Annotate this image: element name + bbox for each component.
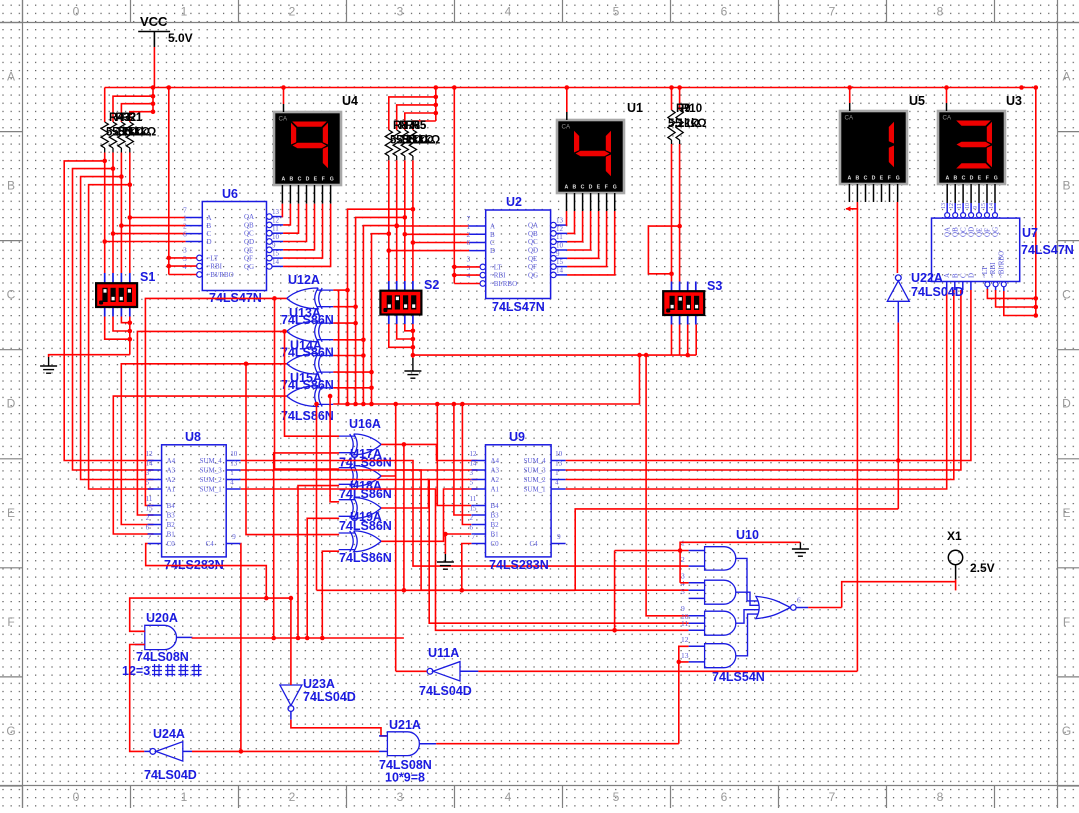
svg-text:10: 10 [272, 233, 280, 241]
U10 AND gate 3 [705, 611, 736, 635]
svg-text:A: A [1062, 70, 1070, 84]
svg-text:QB: QB [952, 227, 960, 237]
svg-text:6: 6 [467, 238, 471, 247]
wire U8 C4 down to bottom row [240, 544, 242, 752]
taps to left bundle [102, 159, 107, 164]
wire U1 CA to bus [566, 88, 568, 113]
wire U23A output to U21A [291, 720, 388, 736]
svg-text:B3: B3 [491, 512, 500, 520]
svg-text:~RBI: ~RBI [989, 262, 997, 278]
U10 input stubs [689, 550, 705, 552]
svg-text:B3: B3 [167, 512, 176, 520]
svg-text:11: 11 [681, 619, 688, 628]
svg-text:S2: S2 [424, 278, 439, 292]
wires U4 segments to U6 [281, 185, 283, 204]
taps to U6 inputs [128, 215, 133, 220]
annotation glyph boxes [152, 664, 162, 677]
ground S1 [40, 366, 57, 373]
AND gate U21A [387, 732, 419, 756]
U10 AND gate 4 [705, 644, 736, 668]
wire S2/S3 common row [413, 354, 696, 356]
svg-text:U8: U8 [185, 430, 201, 444]
svg-text:12=3: 12=3 [122, 664, 150, 678]
svg-text:A3: A3 [167, 467, 176, 475]
wires R9 R10 to S3 [671, 140, 673, 144]
svg-text:5.1kΩ: 5.1kΩ [409, 135, 441, 147]
svg-text:E: E [597, 185, 601, 191]
svg-text:U21A: U21A [389, 718, 421, 732]
wire U12A output to U8 [145, 298, 286, 505]
svg-text:7: 7 [148, 533, 152, 541]
resistor R2 [109, 122, 116, 148]
wires R1-R4 to S1 [104, 153, 106, 274]
chip U9 [486, 445, 552, 557]
svg-text:74LS04D: 74LS04D [419, 684, 472, 698]
U10 AND gate 1 [705, 547, 736, 570]
svg-text:B2: B2 [491, 521, 500, 529]
wire U10 output [796, 607, 808, 609]
svg-text:E: E [314, 177, 318, 183]
svg-text:8: 8 [937, 790, 944, 804]
svg-text:C4: C4 [206, 540, 215, 548]
svg-text:VCC: VCC [140, 14, 168, 29]
svg-text:~BI/RBO: ~BI/RBO [997, 251, 1005, 278]
svg-text:D: D [970, 176, 974, 182]
svg-text:2: 2 [146, 514, 150, 522]
svg-text:A3: A3 [491, 467, 500, 475]
xor gate U16A [339, 434, 382, 455]
wire long row under U9 [317, 589, 576, 591]
xor gate U13A [287, 321, 334, 342]
svg-text:SUM_1: SUM_1 [524, 486, 547, 494]
wires U1 segments to U2 [566, 193, 568, 211]
svg-text:1: 1 [555, 469, 559, 477]
svg-text:SUM_2: SUM_2 [200, 476, 223, 484]
svg-text:11: 11 [146, 495, 153, 503]
wire U5 G segment to U22A [896, 202, 898, 273]
wire U14A output to U8 [121, 364, 286, 525]
svg-text:R5: R5 [412, 120, 427, 132]
svg-text:4: 4 [555, 479, 559, 487]
svg-text:A1: A1 [491, 486, 500, 494]
svg-text:B: B [573, 185, 577, 191]
svg-text:A: A [282, 177, 286, 183]
svg-text:U10: U10 [736, 528, 759, 542]
wire U20A output row [177, 636, 193, 638]
svg-text:13: 13 [230, 460, 238, 468]
probe X1 [948, 550, 962, 564]
svg-text:QD: QD [968, 227, 976, 237]
svg-text:10: 10 [230, 450, 238, 458]
wire output jog to probe [842, 582, 956, 608]
resistor R8 [409, 130, 416, 156]
svg-text:6: 6 [721, 790, 728, 804]
svg-text:74LS04D: 74LS04D [911, 285, 964, 299]
svg-text:3: 3 [397, 5, 404, 19]
xor gate U17A [339, 466, 382, 487]
svg-text:5: 5 [681, 587, 685, 596]
wire U10 pins 12 13 [679, 646, 689, 662]
wire U21A output to U10 [678, 662, 680, 744]
svg-text:A: A [490, 223, 495, 231]
svg-text:11: 11 [470, 495, 477, 503]
svg-text:QE: QE [976, 228, 984, 237]
resistor R7 [401, 130, 408, 156]
U7 LT RBI BIRBO pins to rail [985, 282, 990, 287]
svg-text:C: C [207, 230, 212, 238]
inverter U24A [150, 742, 183, 761]
svg-text:G: G [1062, 724, 1071, 738]
wire U13A output to U8 [137, 331, 286, 515]
svg-text:QB: QB [528, 230, 538, 238]
resistor R4 [126, 122, 133, 148]
svg-text:U5: U5 [909, 94, 925, 108]
wire U9 B1 and ground [445, 533, 471, 535]
svg-text:0: 0 [73, 5, 80, 19]
svg-text:U24A: U24A [153, 727, 185, 741]
svg-text:2.5V: 2.5V [970, 561, 995, 575]
svg-text:D: D [589, 185, 593, 191]
taps R5-R8 to XOR column verticals [411, 207, 416, 212]
svg-text:B: B [290, 177, 294, 183]
svg-text:SUM_4: SUM_4 [524, 457, 547, 465]
taps to U2 inputs [394, 224, 399, 229]
svg-text:6: 6 [146, 524, 150, 532]
svg-text:QC: QC [960, 227, 968, 237]
svg-text:F: F [1063, 615, 1070, 629]
inverter U22A [887, 275, 909, 301]
wires XOR upper input feeds [272, 296, 277, 301]
svg-text:12: 12 [146, 450, 154, 458]
wire row to U20A input1 and U23A [130, 598, 291, 631]
svg-text:9: 9 [557, 533, 561, 541]
svg-text:U9: U9 [509, 430, 525, 444]
svg-text:SUM_1: SUM_1 [200, 486, 223, 494]
svg-text:14: 14 [556, 266, 564, 274]
ground U10 [792, 549, 809, 556]
U5 segment pins [848, 184, 850, 202]
wires U8 SUM outputs to U10 inputs [241, 461, 689, 567]
svg-text:U23A: U23A [303, 677, 335, 691]
U10 OR gate [756, 596, 790, 618]
wires to U6 LT RBI BI/RBO [168, 88, 170, 275]
svg-text:74LS86N: 74LS86N [281, 409, 334, 423]
svg-text:E: E [880, 176, 884, 182]
svg-text:11: 11 [957, 203, 963, 209]
svg-text:11: 11 [556, 233, 563, 241]
svg-text:3: 3 [397, 790, 404, 804]
svg-text:5.0V: 5.0V [168, 31, 193, 45]
svg-text:0: 0 [73, 790, 80, 804]
svg-text:14: 14 [989, 203, 995, 209]
svg-text:SUM_3: SUM_3 [524, 467, 547, 475]
svg-text:5: 5 [470, 479, 474, 487]
svg-text:3: 3 [470, 469, 474, 477]
svg-text:B: B [207, 222, 212, 230]
VCC power symbol [138, 32, 170, 48]
svg-text:A4: A4 [167, 457, 176, 465]
svg-text:F: F [322, 177, 325, 183]
svg-text:QF: QF [984, 228, 992, 237]
svg-text:U3: U3 [1006, 94, 1022, 108]
svg-text:C: C [962, 176, 966, 182]
wires S1 common to ground [129, 317, 131, 355]
svg-text:QG: QG [528, 271, 538, 279]
svg-text:F: F [7, 615, 14, 629]
wire vertical junction under U9 area [614, 551, 616, 631]
wire S3 net down to U10 pin9 [646, 355, 689, 616]
wire right VCC rail [1035, 88, 1037, 316]
svg-text:6: 6 [183, 230, 187, 239]
wire main VCC bus [105, 87, 1036, 89]
svg-text:9: 9 [232, 533, 236, 541]
svg-text:G: G [613, 185, 617, 191]
svg-text:5: 5 [613, 5, 620, 19]
svg-text:U22A: U22A [911, 271, 943, 285]
wire U21A output [419, 743, 436, 745]
svg-text:B: B [856, 176, 860, 182]
tap R10 elbow [677, 224, 682, 229]
svg-text:13: 13 [681, 651, 689, 660]
wires AND outputs to OR [736, 558, 759, 601]
svg-text:74LS04D: 74LS04D [144, 768, 197, 782]
svg-text:A: A [7, 70, 15, 84]
svg-text:74LS86N: 74LS86N [339, 519, 392, 533]
svg-text:12: 12 [556, 225, 564, 233]
svg-text:12: 12 [272, 216, 280, 224]
svg-text:A: A [946, 176, 950, 182]
svg-text:A2: A2 [491, 476, 500, 484]
svg-text:13: 13 [272, 208, 280, 216]
svg-text:11: 11 [272, 225, 279, 233]
xor gate U18A [339, 498, 382, 519]
svg-text:6: 6 [797, 596, 801, 605]
7-segment display U5 [840, 111, 907, 184]
svg-text:B: B [7, 179, 15, 193]
svg-text:B4: B4 [491, 502, 500, 510]
U7 input stubs [946, 282, 948, 291]
U10 AND gate 2 [705, 580, 736, 604]
svg-text:U11A: U11A [428, 646, 459, 660]
svg-text:15: 15 [146, 505, 154, 513]
svg-text:QA: QA [944, 227, 952, 237]
svg-text:9: 9 [973, 206, 979, 209]
switch S2 [388, 281, 390, 291]
svg-text:B: B [954, 176, 958, 182]
svg-text:B: B [1062, 179, 1070, 193]
7-segment display U3 [938, 111, 1005, 184]
ground U9 [437, 562, 454, 569]
svg-text:B4: B4 [167, 502, 176, 510]
svg-text:5: 5 [146, 479, 150, 487]
svg-text:B1: B1 [167, 531, 176, 539]
resistor R10 [679, 88, 681, 111]
svg-text:E: E [7, 506, 15, 520]
svg-text:4: 4 [505, 5, 512, 19]
svg-text:C0: C0 [491, 540, 500, 548]
svg-text:E: E [1062, 506, 1070, 520]
wire U5 B segment down [846, 202, 857, 209]
svg-text:D: D [7, 397, 16, 411]
wires S3 common [671, 325, 673, 356]
svg-text:~LT: ~LT [981, 266, 989, 278]
svg-text:D: D [967, 273, 975, 278]
svg-text:10*9=8: 10*9=8 [385, 771, 425, 785]
svg-text:SUM_3: SUM_3 [200, 467, 223, 475]
wire jog row to U22A net [575, 509, 898, 590]
svg-text:3: 3 [146, 469, 150, 477]
svg-text:1: 1 [181, 5, 188, 19]
svg-text:R1: R1 [128, 112, 143, 124]
wire bus taps to R5-R8 [435, 88, 437, 122]
svg-text:74LS47N: 74LS47N [492, 300, 545, 314]
svg-text:D: D [207, 238, 212, 246]
wire S3 common to row 404 [333, 355, 639, 404]
svg-text:C: C [1062, 288, 1071, 302]
svg-text:G: G [994, 176, 998, 182]
svg-text:1: 1 [230, 469, 234, 477]
svg-text:C4: C4 [530, 540, 539, 548]
wire U5 CA to bus [849, 88, 851, 104]
svg-text:QA: QA [244, 213, 254, 221]
switch S3 [671, 282, 673, 292]
svg-text:9: 9 [556, 250, 560, 258]
svg-text:QG: QG [991, 227, 999, 237]
svg-text:QD: QD [244, 238, 254, 246]
svg-text:7: 7 [472, 533, 476, 541]
svg-text:SUM_4: SUM_4 [200, 457, 223, 465]
svg-text:12: 12 [681, 635, 689, 644]
svg-text:X1: X1 [947, 529, 962, 543]
svg-text:E: E [978, 176, 982, 182]
svg-text:5: 5 [613, 790, 620, 804]
wire U9 C0 [462, 544, 472, 591]
svg-text:QA: QA [528, 222, 538, 230]
svg-text:QG: QG [244, 263, 254, 271]
svg-text:2: 2 [681, 555, 685, 564]
svg-text:7: 7 [829, 790, 836, 804]
wire U3 CA to bus [946, 88, 948, 104]
wires to U2 LT RBI [453, 88, 455, 284]
svg-text:7: 7 [829, 5, 836, 19]
resistor R1 [101, 122, 108, 148]
chip U7 [932, 218, 1020, 281]
switch S1 [104, 273, 106, 283]
svg-text:F: F [605, 185, 608, 191]
svg-text:15: 15 [272, 250, 280, 258]
svg-text:QC: QC [528, 238, 538, 246]
wires S2 common [412, 324, 414, 358]
svg-text:A: A [207, 214, 212, 222]
xor gate U12A [287, 288, 334, 309]
ground S2 [404, 371, 421, 378]
wire U22A input [897, 301, 899, 322]
svg-text:74LS86N: 74LS86N [339, 456, 392, 470]
svg-text:~BI/RBO: ~BI/RBO [490, 280, 517, 288]
wire bus to R1 [104, 88, 106, 123]
svg-text:D: D [306, 177, 310, 183]
svg-text:C0: C0 [167, 540, 176, 548]
svg-text:14: 14 [272, 258, 280, 266]
7-segment display U4 [274, 112, 341, 185]
svg-text:74LS86N: 74LS86N [339, 551, 392, 565]
svg-text:8: 8 [937, 5, 944, 19]
svg-text:A: A [943, 273, 951, 278]
svg-text:9: 9 [272, 241, 276, 249]
svg-text:~LT: ~LT [490, 263, 502, 271]
svg-text:U16A: U16A [349, 417, 381, 431]
wire U24A output to U20A input2 [130, 645, 145, 752]
svg-text:QF: QF [528, 263, 537, 271]
wire U11A output from S3 net [395, 404, 397, 671]
svg-text:12: 12 [949, 203, 955, 209]
wire VCC to bus [153, 47, 155, 88]
svg-text:U2: U2 [506, 195, 522, 209]
svg-text:6: 6 [721, 5, 728, 19]
wire U15A output to U8 [113, 396, 286, 534]
xor gate U14A [287, 353, 334, 374]
svg-text:~BI/RBO: ~BI/RBO [207, 271, 234, 279]
svg-text:U4: U4 [342, 94, 358, 108]
svg-text:74LS08N: 74LS08N [136, 650, 189, 664]
inverter U23A [280, 685, 302, 711]
svg-text:U20A: U20A [146, 611, 178, 625]
svg-text:G: G [896, 176, 900, 182]
wires feeding XOR U12-U15 inputs [345, 288, 350, 293]
wire U8 C0 route [146, 544, 267, 599]
svg-text:14: 14 [146, 460, 154, 468]
wires U16A-U19A outputs to U9 A inputs [381, 444, 477, 460]
svg-text:14: 14 [470, 460, 478, 468]
svg-text:B: B [951, 273, 959, 278]
wire U11A input row [460, 670, 478, 672]
inverter U11A [427, 662, 460, 681]
svg-text:10: 10 [965, 203, 971, 209]
svg-text:CA: CA [845, 115, 854, 122]
svg-text:CA: CA [279, 116, 288, 123]
svg-text:SUM_2: SUM_2 [524, 476, 547, 484]
chip U2 [486, 210, 551, 299]
svg-text:74LS283N: 74LS283N [489, 558, 549, 572]
resistor R5 [385, 130, 392, 156]
svg-text:QE: QE [244, 246, 253, 254]
svg-text:QD: QD [528, 247, 538, 255]
svg-text:C: C [581, 185, 585, 191]
svg-text:CA: CA [943, 115, 952, 122]
wire branch U16A output down [403, 444, 405, 590]
xor gate U15A [287, 386, 334, 407]
svg-text:74LS86N: 74LS86N [281, 313, 334, 327]
svg-text:A: A [565, 185, 569, 191]
wire U4 CA to bus [283, 88, 285, 105]
svg-text:2: 2 [289, 790, 296, 804]
svg-text:5.1kΩ: 5.1kΩ [125, 127, 157, 139]
svg-text:G: G [6, 724, 15, 738]
svg-text:S3: S3 [707, 279, 722, 293]
chip U8 [162, 445, 227, 557]
wire probe stub [955, 580, 957, 591]
svg-text:~LT: ~LT [207, 254, 219, 262]
svg-text:S1: S1 [140, 270, 155, 284]
svg-text:15: 15 [981, 203, 987, 209]
wire U10 pin1 pin3 to ground [615, 550, 689, 552]
svg-text:B: B [490, 231, 495, 239]
svg-text:G: G [330, 177, 334, 183]
svg-text:B1: B1 [491, 531, 500, 539]
svg-text:F: F [888, 176, 891, 182]
chip U6 [202, 202, 266, 291]
svg-text:5.1kΩ: 5.1kΩ [675, 118, 707, 130]
